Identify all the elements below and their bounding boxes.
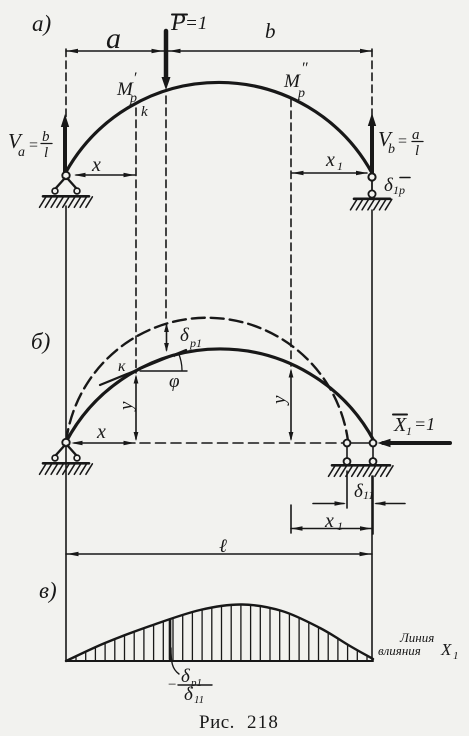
- force arrow X1=1 (thick, leftward): [383, 441, 450, 445]
- roller support B (part a): [368, 173, 375, 180]
- svg-text:1: 1: [337, 519, 343, 533]
- svg-text:б): б): [31, 329, 50, 354]
- section line M''p (x=291) dashed down to part b: [290, 99, 292, 366]
- influence line curve: [66, 604, 373, 661]
- svg-text:ℓ: ℓ: [219, 536, 227, 557]
- pin support A (part a) ground: [43, 195, 89, 198]
- angle phi arc: [179, 354, 182, 371]
- roller circles original position (part b right): [370, 440, 377, 447]
- load arrow P=1 (thick, downward): [164, 31, 169, 79]
- dimension y at x=136 (part b): [135, 377, 137, 439]
- svg-text:Рис.: Рис.: [199, 712, 235, 733]
- svg-text:p1: p1: [189, 336, 202, 350]
- extension line left (x=66) dashed upper part: [65, 49, 67, 170]
- svg-text:=1: =1: [414, 414, 435, 434]
- svg-text:к: к: [118, 358, 126, 375]
- svg-text:b: b: [265, 19, 276, 43]
- dimension y at x=291 (part b): [290, 371, 292, 439]
- svg-text:a: a: [412, 127, 420, 143]
- horizontal ray at k for angle phi: [140, 370, 187, 372]
- influence line ordinate marker at load point: [169, 620, 172, 659]
- load section line (x=166) dashed down to part b: [165, 96, 167, 318]
- arch axis original position (solid, part b): [66, 349, 374, 442]
- support B ground (part b): [332, 464, 390, 467]
- dimension x1 (part b, below): [291, 528, 372, 530]
- extension line x=347 for delta_11: [346, 471, 348, 508]
- svg-text:l: l: [415, 143, 419, 159]
- main vertical line right x=372 (solid, support B down to part v baseline): [371, 210, 373, 440]
- dimension x (part b): [74, 442, 135, 444]
- baseline of part b (dashed): [140, 442, 344, 444]
- svg-text:1: 1: [337, 159, 343, 173]
- svg-text:x: x: [91, 154, 101, 176]
- svg-text:=: =: [398, 133, 407, 150]
- influence line hatching: [76, 606, 367, 660]
- svg-text:l: l: [44, 145, 48, 161]
- pin support A (part a): [62, 172, 69, 179]
- svg-text:в): в): [39, 578, 57, 603]
- delta_p1 double arrow at load line: [166, 325, 168, 350]
- section line k (x=136) dashed: [135, 108, 137, 373]
- reaction arrow Va (thick, upward): [63, 126, 67, 172]
- baseline of influence line: [66, 660, 373, 662]
- roller circles displaced position (part b right): [344, 440, 351, 447]
- main vertical line left x=66 (solid, support A down to part v baseline): [65, 206, 67, 661]
- dimension x1 (part a): [292, 172, 367, 174]
- svg-text:φ: φ: [169, 371, 180, 392]
- displaced arch axis (dashed, part b): [66, 318, 348, 442]
- svg-text:=1: =1: [185, 13, 207, 34]
- svg-text:p: p: [129, 91, 137, 106]
- svg-text:′: ′: [133, 70, 137, 87]
- svg-text:1: 1: [406, 424, 412, 438]
- svg-text:x: x: [324, 510, 334, 532]
- svg-text:1p: 1p: [393, 183, 405, 197]
- tangent line at point k (part b): [100, 350, 186, 385]
- svg-text:11: 11: [194, 694, 204, 706]
- svg-text:1: 1: [453, 650, 459, 662]
- svg-text:x: x: [96, 421, 106, 443]
- pin support A (part b) ground: [43, 462, 89, 465]
- pin support A (part b): [62, 439, 69, 446]
- dimension line a-b at top: [66, 50, 372, 52]
- svg-text:b: b: [42, 129, 50, 145]
- dimension l (span): [66, 553, 372, 555]
- extension line right (x=372) dashed upper part: [371, 49, 373, 171]
- svg-text:a: a: [18, 145, 25, 160]
- leader line to fraction label: [171, 648, 179, 674]
- svg-text:X: X: [393, 414, 407, 436]
- reaction arrow Vb (thick, upward): [370, 126, 374, 173]
- extension line x=373 continues down: [372, 476, 374, 534]
- dimension delta_11 (arrows inward): [313, 503, 344, 505]
- svg-text:−: −: [168, 677, 176, 693]
- dimension x (part a): [76, 174, 135, 176]
- svg-text:δ: δ: [180, 325, 190, 346]
- support B ground: [354, 198, 390, 201]
- extension line x=291 for x1: [290, 505, 292, 533]
- svg-text:δ: δ: [184, 684, 194, 705]
- svg-text:a: a: [106, 22, 121, 55]
- svg-text:y: y: [269, 395, 290, 406]
- svg-text:11: 11: [363, 488, 374, 502]
- arch axis (part a): [66, 82, 372, 173]
- svg-text:k: k: [141, 104, 148, 120]
- svg-text:″: ″: [301, 60, 308, 77]
- svg-text:b: b: [388, 142, 395, 157]
- svg-text:p: p: [297, 86, 305, 101]
- svg-text:218: 218: [247, 712, 279, 733]
- svg-text:а): а): [32, 11, 51, 36]
- svg-text:y: y: [116, 401, 137, 412]
- svg-text:влияния: влияния: [378, 643, 421, 658]
- svg-text:x: x: [325, 149, 335, 171]
- svg-text:=: =: [29, 137, 38, 154]
- svg-text:X: X: [440, 640, 452, 659]
